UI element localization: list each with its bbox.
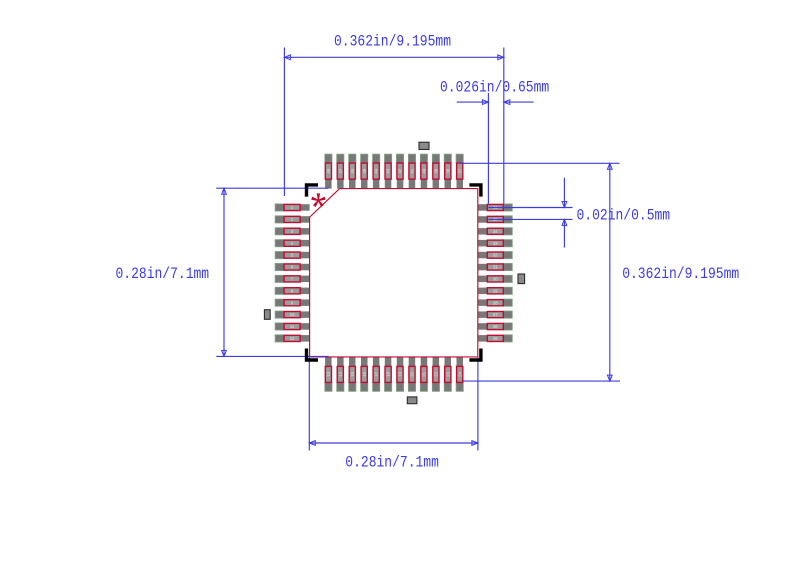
pad 48 (top row) bbox=[324, 154, 332, 189]
svg-text:31: 31 bbox=[493, 265, 498, 270]
left dimension line 0.28in/7.1mm bbox=[223, 188, 225, 356]
pad 16 (bottom row) bbox=[360, 357, 368, 392]
svg-text:34: 34 bbox=[493, 229, 498, 234]
svg-text:42: 42 bbox=[398, 168, 403, 173]
svg-text:21: 21 bbox=[422, 371, 427, 376]
pad 17 (bottom row) bbox=[372, 357, 380, 392]
IC body outline with pin-1 chamfer bbox=[310, 189, 478, 357]
svg-text:25: 25 bbox=[493, 336, 498, 341]
svg-text:15: 15 bbox=[350, 371, 355, 376]
pad 11 (left column) bbox=[275, 323, 310, 331]
pad 21 (bottom row) bbox=[420, 357, 428, 392]
svg-text:20: 20 bbox=[410, 371, 415, 376]
pad 31 (right column) bbox=[478, 263, 513, 271]
svg-text:24: 24 bbox=[457, 371, 462, 376]
pad 3 (left column) bbox=[275, 227, 310, 235]
pad 24 (bottom row) bbox=[456, 357, 464, 392]
pad 47 (top row) bbox=[336, 154, 344, 189]
pad 27 (right column) bbox=[478, 311, 513, 319]
pad 10 (left column) bbox=[275, 311, 310, 319]
pad 20 (bottom row) bbox=[408, 357, 416, 392]
svg-text:13: 13 bbox=[326, 371, 331, 376]
extension line bottom of right dimension bbox=[463, 380, 620, 382]
pad 5 (left column) bbox=[275, 251, 310, 259]
pad 29 (right column) bbox=[478, 287, 513, 295]
extension line for pad pitch bbox=[487, 93, 489, 204]
silkscreen bracket top-right bbox=[469, 183, 482, 196]
pad 45 (top row) bbox=[360, 154, 368, 189]
svg-text:28: 28 bbox=[493, 300, 498, 305]
svg-text:0.28in/7.1mm: 0.28in/7.1mm bbox=[116, 265, 210, 283]
svg-text:11: 11 bbox=[290, 324, 295, 329]
pad 2 (left column) bbox=[275, 215, 310, 223]
pad 15 (bottom row) bbox=[348, 357, 356, 392]
svg-text:37: 37 bbox=[457, 168, 462, 173]
svg-text:23: 23 bbox=[445, 371, 450, 376]
svg-text:30: 30 bbox=[493, 277, 498, 282]
pad 43 (top row) bbox=[384, 154, 392, 189]
silkscreen bracket top-left bbox=[305, 183, 318, 196]
svg-text:12: 12 bbox=[290, 336, 295, 341]
extension line upper of pad dimension bbox=[488, 207, 572, 209]
extension line top of left dimension bbox=[216, 187, 328, 189]
svg-text:17: 17 bbox=[374, 371, 379, 376]
pad 40 (top row) bbox=[420, 154, 428, 189]
extension line lower of pad dimension bbox=[488, 218, 572, 220]
silkscreen bracket bottom-right bbox=[469, 349, 482, 362]
svg-text:48: 48 bbox=[326, 168, 331, 173]
pad 42 (top row) bbox=[396, 154, 404, 189]
pad 25 (right column) bbox=[478, 334, 513, 342]
pad 22 (bottom row) bbox=[432, 357, 440, 392]
extension line right of bottom dimension bbox=[477, 357, 479, 451]
pad 23 (bottom row) bbox=[444, 357, 452, 392]
pad 26 (right column) bbox=[478, 323, 513, 331]
pad 44 (top row) bbox=[372, 154, 380, 189]
pad 7 (left column) bbox=[275, 275, 310, 283]
svg-text:29: 29 bbox=[493, 288, 498, 293]
svg-text:10: 10 bbox=[290, 312, 295, 317]
svg-text:43: 43 bbox=[386, 168, 391, 173]
pad 4 (left column) bbox=[275, 239, 310, 247]
pad 14 (bottom row) bbox=[336, 357, 344, 392]
svg-text:41: 41 bbox=[410, 168, 415, 173]
right dimension line 0.362in/9.195mm bbox=[609, 163, 611, 381]
pitch dimension line 0.026in/0.65mm bbox=[457, 101, 489, 103]
pad 12 (left column) bbox=[275, 334, 310, 342]
svg-text:0.02in/0.5mm: 0.02in/0.5mm bbox=[577, 206, 671, 224]
pad 8 (left column) bbox=[275, 287, 310, 295]
extension line left of bottom dimension bbox=[308, 357, 310, 451]
orientation mark right bbox=[518, 274, 525, 284]
svg-text:19: 19 bbox=[398, 371, 403, 376]
svg-text:0.026in/0.65mm: 0.026in/0.65mm bbox=[440, 79, 549, 97]
svg-text:26: 26 bbox=[493, 324, 498, 329]
pin-1 marker asterisk bbox=[311, 193, 325, 207]
pad 13 (bottom row) bbox=[324, 357, 332, 392]
svg-text:18: 18 bbox=[386, 371, 391, 376]
svg-text:27: 27 bbox=[493, 312, 498, 317]
svg-text:47: 47 bbox=[338, 168, 343, 173]
svg-text:0.362in/9.195mm: 0.362in/9.195mm bbox=[334, 33, 451, 51]
pad 35 (right column) bbox=[478, 215, 513, 223]
svg-text:16: 16 bbox=[362, 371, 367, 376]
pad 32 (right column) bbox=[478, 251, 513, 259]
pad dimension leader 0.02in/0.5mm bbox=[563, 178, 565, 208]
svg-text:22: 22 bbox=[433, 371, 438, 376]
svg-text:44: 44 bbox=[374, 168, 379, 173]
pad 1 (left column) bbox=[275, 204, 310, 212]
svg-text:38: 38 bbox=[445, 168, 450, 173]
pad 41 (top row) bbox=[408, 154, 416, 189]
pad 6 (left column) bbox=[275, 263, 310, 271]
svg-text:39: 39 bbox=[433, 168, 438, 173]
pad 33 (right column) bbox=[478, 239, 513, 247]
orientation mark top bbox=[419, 142, 429, 149]
svg-text:33: 33 bbox=[493, 241, 498, 246]
extension line left of top dimension bbox=[283, 48, 285, 197]
pad 18 (bottom row) bbox=[384, 357, 392, 392]
pad 39 (top row) bbox=[432, 154, 440, 189]
silkscreen bracket bottom-left bbox=[305, 349, 318, 362]
extension line right of top dimension bbox=[503, 48, 505, 204]
pad 46 (top row) bbox=[348, 154, 356, 189]
svg-text:46: 46 bbox=[350, 168, 355, 173]
pad 36 (right column) bbox=[478, 204, 513, 212]
extension line top of right dimension bbox=[460, 162, 620, 164]
top dimension line 0.362in/9.195mm bbox=[284, 56, 503, 58]
svg-text:32: 32 bbox=[493, 253, 498, 258]
svg-text:14: 14 bbox=[338, 371, 343, 376]
orientation mark bottom bbox=[407, 397, 417, 404]
bottom dimension line 0.28in/7.1mm bbox=[309, 442, 478, 444]
pad 30 (right column) bbox=[478, 275, 513, 283]
svg-text:40: 40 bbox=[422, 168, 427, 173]
pad 34 (right column) bbox=[478, 227, 513, 235]
pad 28 (right column) bbox=[478, 299, 513, 307]
pad 9 (left column) bbox=[275, 299, 310, 307]
pad 19 (bottom row) bbox=[396, 357, 404, 392]
svg-text:45: 45 bbox=[362, 168, 367, 173]
orientation mark left bbox=[264, 310, 270, 320]
svg-text:0.362in/9.195mm: 0.362in/9.195mm bbox=[622, 265, 739, 283]
pad 37 (top row) bbox=[456, 154, 464, 189]
svg-text:0.28in/7.1mm: 0.28in/7.1mm bbox=[345, 453, 439, 471]
extension line bottom of left dimension bbox=[216, 355, 328, 357]
pad 38 (top row) bbox=[444, 154, 452, 189]
